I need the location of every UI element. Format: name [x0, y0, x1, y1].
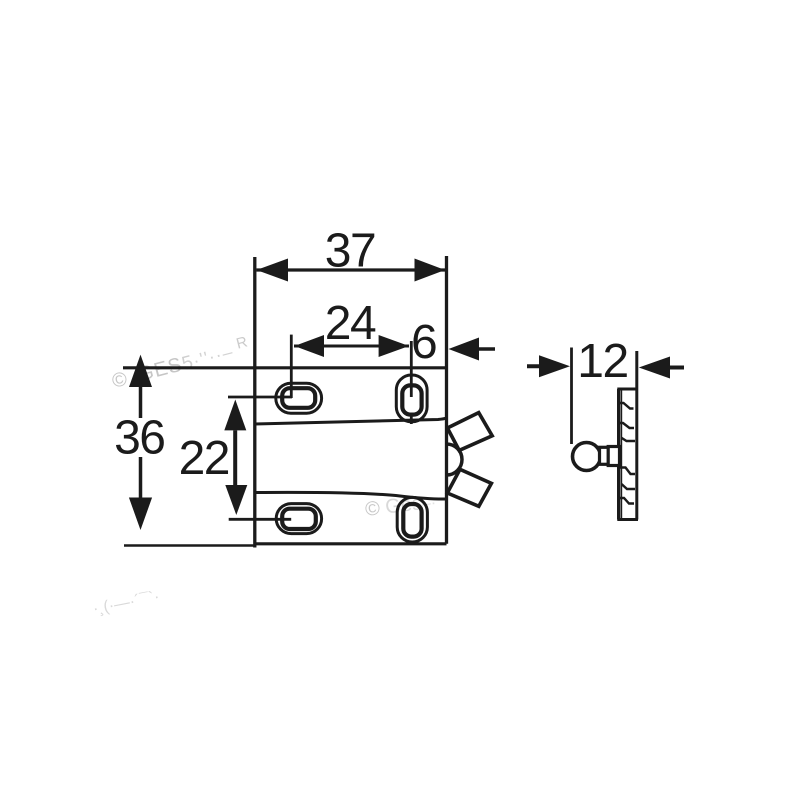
svg-text:24: 24: [325, 297, 376, 350]
dimension 37: line: [257, 268, 446, 271]
36 bottom extension line: [124, 544, 255, 547]
dimension 36: top arrowhead: [129, 355, 152, 387]
lower spring wing: [447, 469, 491, 506]
dimension 24: left arrowhead: [294, 335, 324, 357]
side view: collar: [600, 447, 609, 464]
front view: plate bottom edge: [255, 542, 447, 545]
dimension 12: left arrow: [527, 364, 545, 368]
front view: plate left edge with 37-extension: [253, 257, 256, 548]
slot top-left inner: [282, 388, 315, 408]
strip serration step 6: [618, 498, 635, 504]
slot top-left outer: [276, 383, 322, 413]
side view: block: [608, 447, 619, 466]
slot bottom-left inner: [282, 509, 316, 529]
strip serration step 1: [618, 403, 634, 409]
slot bottom-left outer: [276, 504, 321, 534]
side view strip: top edge: [617, 388, 638, 391]
svg-text:22: 22: [179, 432, 229, 485]
front view: plate right edge with 37-extension: [445, 256, 448, 544]
slot top-right outer: [396, 375, 427, 422]
dimension 37: left arrowhead: [257, 259, 289, 282]
slot top-right inner: [402, 385, 421, 414]
dimension 22: bottom arrowhead: [225, 485, 247, 515]
dimension 22: vertical line: [233, 430, 237, 485]
side view: roller ball: [573, 443, 601, 471]
dimension 37: right arrowhead: [415, 259, 446, 282]
side view strip: inner left line: [620, 389, 622, 520]
strip serration step 5: [622, 484, 636, 489]
side view: left extension line of 12: [570, 348, 573, 445]
upper spring wing: [447, 413, 492, 451]
side view strip: left edge: [617, 389, 620, 520]
latch body band bottom edge: [255, 492, 447, 499]
dimension 22: top arrowhead: [224, 400, 246, 431]
strip serration step 4: [618, 468, 636, 475]
side view: right extension line of 12 + strip right edge: [635, 351, 638, 520]
strip serration step 3: [621, 438, 635, 442]
dimension 36: bottom arrowhead: [129, 498, 152, 531]
front view: plate top edge with 36-extension: [123, 366, 447, 369]
dimension 22: top extension line: [228, 396, 292, 399]
watermark © Ges middle: [364, 490, 437, 521]
watermark smudge lower-left: [92, 588, 161, 618]
dimension 22: bottom extension line: [229, 518, 292, 521]
dimension 36: vertical line: [139, 387, 143, 498]
side view strip: bottom edge: [617, 518, 638, 521]
dimension 24: right arrowhead: [379, 335, 409, 357]
dimension 24: left extension line: [290, 335, 293, 398]
roller bump on right edge: [447, 444, 462, 475]
watermark ©GES upper-left: [109, 333, 252, 393]
svg-text:36: 36: [114, 411, 164, 464]
dimension 24: line: [294, 345, 409, 348]
strip serration step 2: [618, 423, 635, 428]
latch body band top edge: [255, 418, 447, 424]
svg-text:12: 12: [577, 335, 627, 388]
slot bottom-right outer: [397, 497, 427, 542]
dimension 12: right arrow: [670, 366, 684, 370]
dimension 24: right extension line (through slot): [410, 341, 413, 424]
svg-text:37: 37: [325, 224, 375, 277]
svg-text:6: 6: [411, 316, 438, 369]
dimension 6: arrow pointing left at plate edge: [479, 347, 495, 351]
slot bottom-right inner: [403, 504, 421, 537]
